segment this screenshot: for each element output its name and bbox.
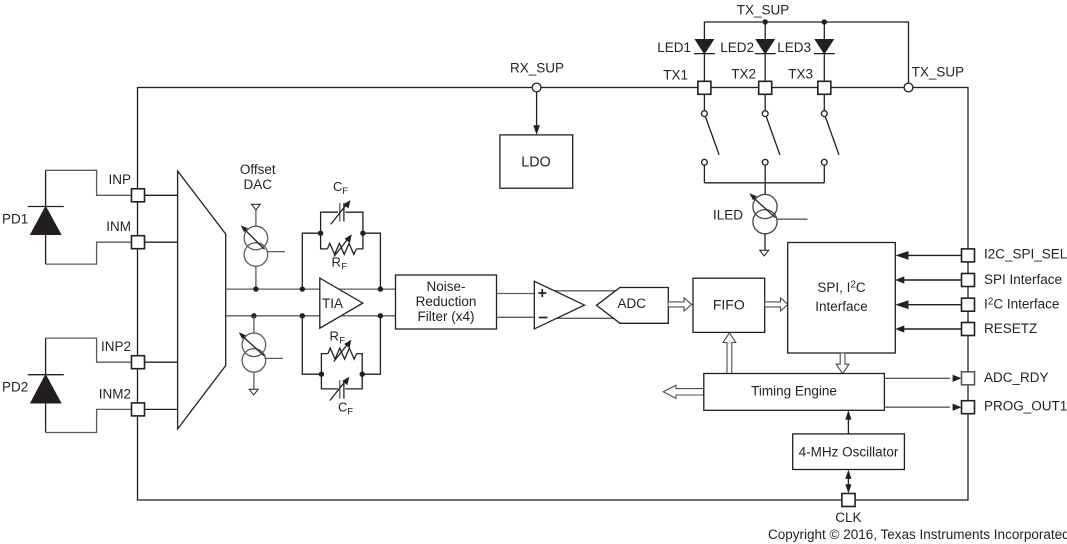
wire PD2 cathode loop to INM2 [46,409,133,432]
pin I2C_SPI_SEL [962,247,1067,262]
svg-text:LED1: LED1 [657,40,691,55]
bus arrow FIFO to SPI [765,298,788,311]
svg-text:TX1: TX1 [663,68,688,83]
chip boundary [138,88,969,501]
FIFO block [693,278,765,332]
svg-text:R: R [330,329,339,344]
pin I2C Interface [962,297,1060,312]
svg-text:F: F [342,186,348,197]
bus arrow ADC to FIFO [668,298,692,311]
svg-text:INP: INP [108,172,131,187]
svg-text:TX_SUP: TX_SUP [912,65,965,80]
svg-text:LED2: LED2 [720,40,754,55]
svg-text:ADC: ADC [618,296,647,311]
node dot lower feedback right [360,372,365,377]
wire filter to buffer (+) [497,293,535,295]
wire supply to current source [255,210,257,226]
svg-text:C: C [338,400,347,415]
wire PD1 cathode loop to INM [46,242,133,264]
wire RX_SUP to LDO (arrow down) [533,92,540,135]
pin SPI Interface [962,272,1063,287]
svg-text:PD1: PD1 [2,212,28,227]
node dot rail LED3 [822,19,827,24]
LED3 [777,22,835,81]
svg-text:INP2: INP2 [101,339,131,354]
wire buffer to ADC top [545,290,625,292]
node RX_SUP [510,61,564,92]
wire INP to mux [145,194,178,196]
pin ADC_RDY [962,370,1049,385]
svg-text:CLK: CLK [835,510,861,525]
timing engine block [704,374,885,411]
svg-text:ILED: ILED [713,208,743,223]
node dot: feedback top-left [300,286,305,291]
current source I1 (offset DAC top) [241,225,285,289]
oscillator block [793,434,905,470]
svg-text:LDO: LDO [521,155,550,171]
supply arrow (top offset DAC) [252,204,261,210]
node dot: feedback top-right [378,286,383,291]
wire PD1 anode loop to INP [46,170,133,195]
pin INP2 [101,339,145,369]
node dot: feedback bottom-left [300,313,305,318]
node dot rail LED2 [763,19,768,24]
wire switch bus [704,182,824,184]
pin INM [106,219,144,249]
pin TX3 [788,67,831,95]
svg-text:INM: INM [106,219,131,234]
wire I2C Interface to SPI box [895,300,961,309]
resistor RF (lower) [321,329,362,375]
capacitor CF (lower) [321,374,362,417]
bus arrow SPI to timing engine [836,353,849,374]
svg-text:ADC_RDY: ADC_RDY [984,370,1049,385]
svg-text:I2C Interface: I2C Interface [984,297,1059,312]
svg-text:Offset: Offset [240,162,276,177]
ground arrow ILED [760,250,769,256]
svg-text:SPI Interface: SPI Interface [984,272,1062,287]
wire timing engine to ADC_RDY [884,375,961,382]
wire INP2 to mux [145,361,178,363]
current source I2 (offset DAC bottom) [239,316,283,390]
switch S3 [821,94,839,183]
svg-text:R: R [332,255,341,270]
svg-text:DAC: DAC [244,177,273,192]
wire I2C_SPI_SEL to SPI box [895,251,961,260]
svg-text:SPI, I2C: SPI, I2C [817,280,866,296]
op-amp TIA [320,278,363,328]
node dot upper feedback right [360,231,365,236]
node TX_SUP [904,65,964,92]
wire oscillator to CLK (double arrow) [845,470,851,494]
wire oscillator to timing engine (arrow up) [845,410,851,434]
svg-text:PROG_OUT1: PROG_OUT1 [984,399,1067,414]
photodiode PD1 [2,170,64,264]
svg-text:4-MHz Oscillator: 4-MHz Oscillator [799,445,899,460]
pin INM2 [99,387,145,416]
pin TX2 [731,67,771,95]
LED2 [720,22,775,81]
bus arrow timing engine to left [663,385,704,398]
pin RESETZ [962,321,1038,336]
pin CLK [835,494,861,526]
wire SPI Interface to SPI box [895,276,961,283]
resistor RF (upper) [321,233,363,272]
svg-text:F: F [339,336,345,347]
wire PD2 anode loop to INP2 [46,338,133,362]
wire RESETZ to SPI box [895,325,961,332]
wire INM2 to mux [145,408,178,410]
svg-text:Interface: Interface [815,299,868,314]
ADC block [597,288,669,324]
current source ILED [713,193,808,250]
svg-text:Noise-: Noise- [426,279,465,294]
wire TX_SUP rail [704,22,908,83]
input multiplexer [178,171,226,429]
wire bus to ILED [764,183,766,195]
bus arrow timing engine to FIFO [723,333,736,374]
wire rail bottom (mux to filter) [226,315,396,317]
svg-text:LED3: LED3 [777,40,811,55]
svg-text:INM2: INM2 [99,387,131,402]
svg-text:TX_SUP: TX_SUP [737,3,790,18]
svg-text:TX2: TX2 [731,67,756,82]
wire timing engine to PROG_OUT1 [884,404,961,411]
pin PROG_OUT1 [962,399,1067,414]
svg-text:F: F [341,262,347,273]
svg-text:TIA: TIA [322,296,343,311]
svg-text:C: C [333,179,342,194]
switch S2 [762,94,780,183]
wire buffer to ADC bottom [545,317,625,319]
SPI I2C interface block [788,243,896,354]
photodiode PD2 [2,338,64,432]
wire rail top (mux to filter) [226,288,396,290]
LDO block [500,135,573,188]
svg-text:TX3: TX3 [788,67,813,82]
wire INM to mux [145,241,178,243]
wire filter to buffer (-) [497,316,535,318]
node dot upper feedback left [318,231,323,236]
node dot: feedback bottom-right [378,313,383,318]
node dot: offset bottom on rail [251,313,256,318]
wire lower feedback outer loop [302,316,380,374]
capacitor CF (upper) [321,179,363,233]
ground arrow (bottom offset DAC) [249,389,258,395]
pin TX1 [663,68,711,95]
wire upper feedback outer loop [302,233,380,289]
svg-text:I2C_SPI_SEL: I2C_SPI_SEL [984,247,1067,262]
svg-text:RX_SUP: RX_SUP [510,61,564,76]
svg-text:PD2: PD2 [2,380,28,395]
svg-text:Timing Engine: Timing Engine [751,384,837,399]
svg-text:Reduction: Reduction [416,294,477,309]
svg-text:Copyright © 2016, Texas Instru: Copyright © 2016, Texas Instruments Inco… [768,527,1067,542]
svg-text:FIFO: FIFO [713,297,745,313]
pin INP [108,172,144,202]
svg-text:F: F [347,407,353,418]
switch S1 [702,94,720,183]
svg-text:Filter (x4): Filter (x4) [418,309,475,324]
noise-reduction filter box [396,275,497,329]
LED1 [657,40,715,81]
node dot lower feedback left [319,372,324,377]
svg-text:RESETZ: RESETZ [984,321,1037,336]
offset DAC label [240,162,276,192]
op-amp buffer U2 [534,281,584,329]
node dot: offset top on rail [253,286,258,291]
